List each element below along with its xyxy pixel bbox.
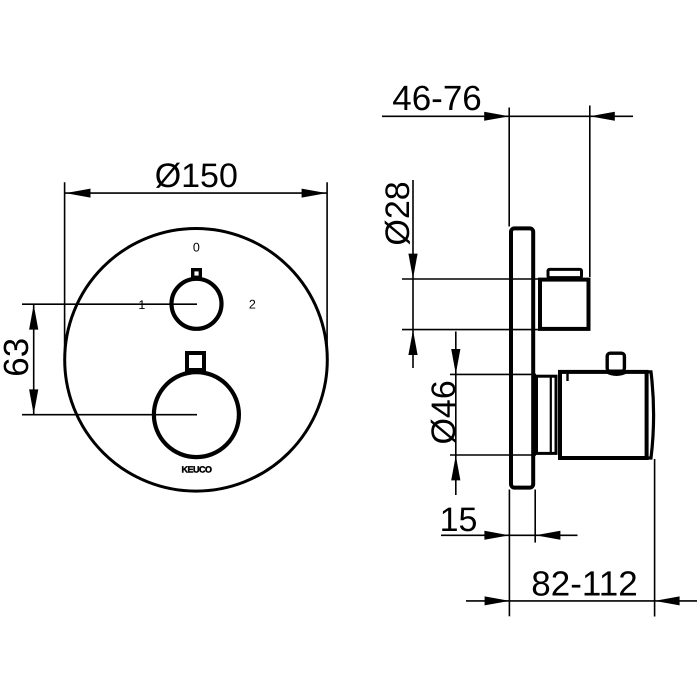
dim 63 arrow top bbox=[29, 305, 38, 330]
dim 46-76 ext left bbox=[508, 108, 510, 227]
svg-text:Ø150: Ø150 bbox=[155, 157, 238, 195]
dim Ø28 ext bottom bbox=[402, 329, 538, 331]
svg-text:Ø46: Ø46 bbox=[425, 380, 463, 444]
dim Ø46 dimension line bbox=[455, 332, 457, 496]
dim 46-76 arrow right bbox=[590, 112, 615, 121]
thermostat knob cap (side) bbox=[548, 269, 582, 277]
volume knob end cap (side) bbox=[647, 372, 654, 458]
adapter inner ring line bbox=[550, 375, 552, 454]
svg-text:Ø28: Ø28 bbox=[379, 181, 417, 245]
dim 46-76 dimension line bbox=[382, 115, 633, 117]
dim 63 arrow bottom bbox=[29, 389, 38, 414]
dim 63 dimension line bbox=[33, 304, 35, 415]
dim Ø150 dimension line bbox=[65, 192, 328, 194]
dim 15 arrow right bbox=[535, 531, 560, 540]
volume knob button (side) bbox=[607, 353, 624, 371]
dim 15 ext left (shared with 82-112) bbox=[508, 490, 510, 617]
dim Ø46 arrow bottom bbox=[451, 455, 460, 480]
pointer line to big knob center bbox=[22, 414, 197, 416]
svg-text:63: 63 bbox=[0, 338, 36, 377]
volume knob circle (front, Ø46) bbox=[154, 372, 239, 457]
thermostat knob index square (front) bbox=[193, 270, 201, 278]
escutcheon plate circle Ø150 bbox=[65, 228, 328, 491]
pointer line to small knob center bbox=[22, 303, 197, 305]
dim Ø150 arrow right bbox=[302, 189, 327, 198]
svg-text:2: 2 bbox=[249, 298, 256, 312]
dim Ø28 ext top bbox=[402, 278, 538, 280]
index tick on volume knob bbox=[566, 372, 568, 381]
svg-text:15: 15 bbox=[440, 501, 478, 539]
svg-text:0: 0 bbox=[193, 241, 200, 255]
dim Ø150 ext left bbox=[64, 182, 66, 352]
dim 15 arrow left bbox=[484, 531, 509, 540]
dim Ø150 arrow left bbox=[66, 189, 91, 198]
dim Ø150 ext right bbox=[326, 182, 328, 348]
dim Ø46 arrow top bbox=[451, 349, 460, 374]
arc under button bbox=[606, 372, 627, 375]
dim 82-112 arrow left bbox=[485, 596, 510, 605]
thermostat knob circle (front, Ø28) bbox=[172, 279, 222, 329]
dim 15 ext right bbox=[534, 490, 536, 543]
dim Ø28 dimension line bbox=[412, 180, 414, 368]
dim 15 dimension line bbox=[441, 534, 578, 536]
dim Ø28 arrow top bbox=[408, 254, 417, 279]
dim Ø28 arrow bottom bbox=[408, 330, 417, 355]
dim Ø46 ext bottom bbox=[450, 454, 536, 456]
dim Ø46 ext top bbox=[450, 373, 536, 375]
svg-text:KEUCO: KEUCO bbox=[181, 465, 212, 475]
svg-text:46-76: 46-76 bbox=[392, 79, 482, 118]
dim 82-112 arrow right bbox=[655, 596, 680, 605]
valve adapter ring (side, Ø46) bbox=[537, 376, 557, 453]
svg-text:1: 1 bbox=[138, 298, 145, 312]
thermostat knob body (side) bbox=[540, 280, 589, 329]
dim 46-76 ext right bbox=[589, 106, 591, 278]
dim 82-112 ext right bbox=[654, 459, 656, 617]
volume knob index square (front) bbox=[187, 353, 204, 370]
wall plate (side) bbox=[511, 228, 533, 487]
svg-text:82-112: 82-112 bbox=[531, 565, 637, 604]
volume knob body (side) bbox=[560, 372, 647, 458]
dim 82-112 dimension line bbox=[466, 600, 697, 602]
dim 46-76 arrow left bbox=[484, 112, 509, 121]
